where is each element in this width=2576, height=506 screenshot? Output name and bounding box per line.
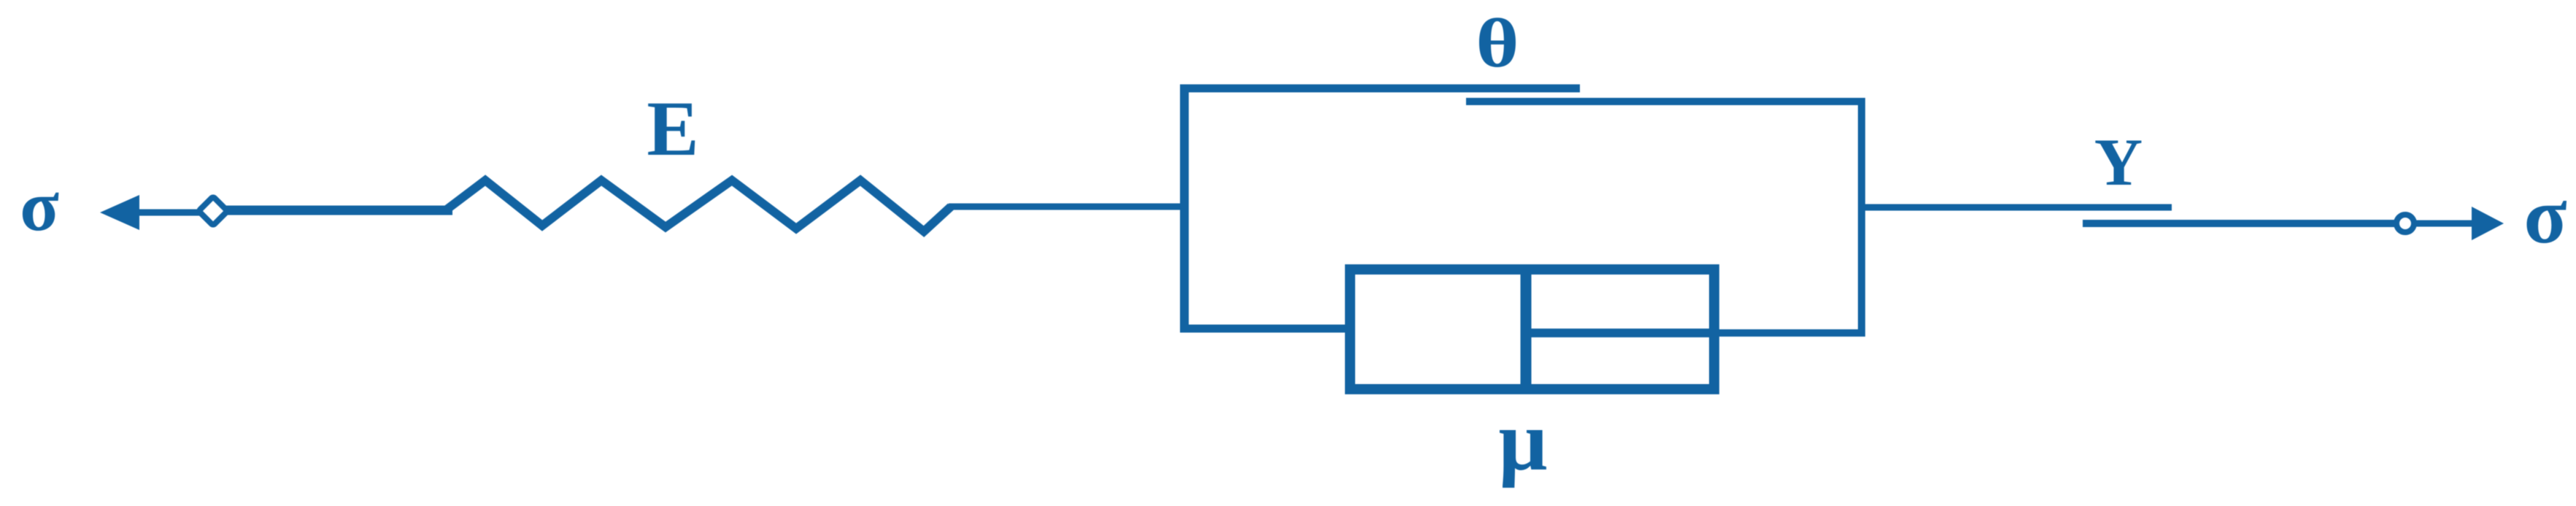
friction slider Y: bottom plate [2083,220,2396,227]
wire: left terminal arrow head [100,195,139,230]
wire: right terminal arrow head [2472,207,2504,240]
svg-text:σ: σ [2523,172,2567,260]
spring E (zigzag) [447,180,951,231]
wire: rod to right vertical [1709,329,1865,337]
wire: parallel block left vertical [1180,85,1189,329]
svg-text:σ: σ [20,166,59,246]
friction slider theta: bottom plate [1466,98,1865,105]
dashpot mu: piston plate [1521,267,1532,391]
wire: bottom branch left segment [1180,325,1354,333]
dashpot mu: cylinder body [1350,269,1714,389]
wire: terminal to right arrow [2415,221,2478,227]
svg-text:E: E [647,86,698,172]
wire: parallel block right vertical [1858,98,1865,336]
wire: left arrow shaft [134,210,201,216]
svg-text:Y: Y [2094,125,2143,199]
node: right terminal open circle [2396,215,2414,232]
wire: spring to parallel block [949,204,1189,210]
svg-text:μ: μ [1499,393,1548,488]
wire: left lead to spring [223,206,452,215]
node: left terminal open diamond [198,196,228,226]
dashpot mu: piston rod [1526,329,1714,337]
friction slider theta: top plate [1180,85,1580,93]
friction slider Y: top plate (output lead) [1862,204,2172,211]
svg-text:θ: θ [1476,4,1519,82]
